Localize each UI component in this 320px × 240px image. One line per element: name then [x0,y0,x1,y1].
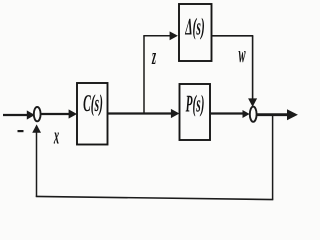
wire: z into delta [143,35,170,37]
wire: output from S2 [257,113,289,116]
summing junction S2 [250,107,257,122]
wire: input reference into summer S1 [3,114,29,116]
arrowhead into delta [170,31,178,40]
wire: feedback bottom run [36,196,273,199]
arrowhead output [287,109,298,120]
wire: w drop vertical [252,36,254,100]
node z label [152,53,156,64]
arrowhead into C(s) [69,109,77,118]
arrowhead down into summer S2 [248,98,257,107]
arrowhead into summer S1 [27,110,35,119]
summing junction S1 [34,107,41,121]
wire: feedback tap down right [272,115,274,200]
minus sign at S1 [18,130,24,132]
wire: feedback up left into S1 [36,130,38,197]
arrowhead into P(s) [171,109,180,118]
label Delta(s) [185,18,204,40]
arrowhead into summer S2 [243,110,250,118]
label C(s) [84,94,103,116]
arrowhead up into S1 [32,124,41,132]
uncertainty block U1 Delta(s) [179,4,212,61]
node x label [54,133,59,144]
plant block P1 P(s) [180,84,211,140]
wire: z tap vertical [143,36,145,114]
wire: delta output horizontal [212,35,254,37]
wire: S1 to C(s) [41,113,70,115]
wire: P(s) to summer S2 [210,112,243,114]
label P(s) [186,95,204,117]
controller block C1 C(s) [77,83,108,145]
node w label [239,51,246,62]
wire: C(s) to P(s) [108,112,173,114]
